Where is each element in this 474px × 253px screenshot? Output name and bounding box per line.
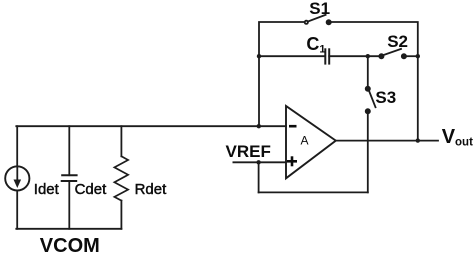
wire S3 upper segment <box>367 56 369 88</box>
svg-text:VCOM: VCOM <box>40 235 100 253</box>
switch S3 <box>366 87 376 114</box>
capacitor C1 <box>325 49 329 63</box>
svg-text:S1: S1 <box>309 0 330 18</box>
wire Rdet branch lower <box>120 201 122 229</box>
wire bottom rail up to plus node <box>258 162 260 192</box>
wire C1 row left segment <box>259 55 325 57</box>
node junction non-inverting input <box>256 160 260 164</box>
wire C1 row right segment to S2 <box>329 55 381 57</box>
wire bottom detector rail <box>16 228 121 230</box>
wire S1 right segment to top-right corner <box>329 22 418 141</box>
svg-text:Cdet: Cdet <box>75 181 108 198</box>
wire VREF to non-inverting input <box>233 161 286 163</box>
wire bottom feedback rail <box>259 191 368 193</box>
svg-text:S2: S2 <box>387 32 408 51</box>
wire S3 lower segment down to bottom rail <box>367 111 369 192</box>
node junction output / right vertical <box>416 138 420 142</box>
wire detector left branch lower <box>16 191 18 229</box>
node junction C1 row / S3 branch <box>366 54 370 58</box>
node junction C1 row / right vertical <box>416 54 420 58</box>
wire Cdet branch upper <box>68 126 70 175</box>
wire S2 to right vertical <box>404 55 418 57</box>
wire Cdet branch lower <box>68 181 70 229</box>
op-amp U1 triangle <box>286 106 336 178</box>
svg-text:VREF: VREF <box>226 142 271 161</box>
svg-text:S3: S3 <box>375 88 396 107</box>
current source Idet arrow <box>14 168 22 189</box>
resistor Rdet <box>114 156 128 200</box>
switch S2 <box>379 49 406 59</box>
current source Idet circle <box>5 166 29 190</box>
capacitor Cdet <box>62 175 77 181</box>
node junction C1 row / left vertical <box>257 54 261 58</box>
wire Rdet branch upper <box>120 126 122 156</box>
wire op-amp output <box>336 140 438 142</box>
label minus input <box>289 125 297 128</box>
label plus input <box>287 156 297 166</box>
wire detector left branch upper <box>16 126 18 166</box>
svg-text:Idet: Idet <box>34 181 60 198</box>
svg-text:Vout: Vout <box>442 126 473 149</box>
node junction inverting input <box>257 124 261 128</box>
svg-text:C1: C1 <box>306 34 325 56</box>
wire top feedback rail (S1 row) <box>259 22 305 126</box>
switch S1 <box>305 15 331 24</box>
svg-text:A: A <box>301 134 309 148</box>
wire inverting input rail (detector to op-amp) <box>16 125 286 127</box>
svg-text:Rdet: Rdet <box>135 181 168 198</box>
